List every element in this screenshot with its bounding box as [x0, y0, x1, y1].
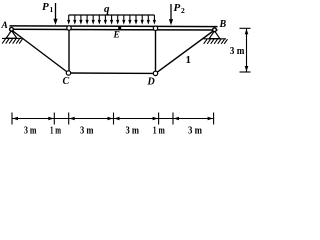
svg-text:3 m: 3 m — [24, 125, 37, 137]
dimension ticks bottom — [12, 113, 214, 125]
beam top chord A-B (double line) — [10, 26, 218, 30]
svg-text:E: E — [113, 30, 120, 40]
load P2 arrow — [169, 4, 173, 25]
dimension line right vertical — [246, 29, 248, 73]
svg-text:P: P — [174, 2, 181, 14]
wire diagonal member D-B — [156, 30, 215, 73]
dimension arrowheads right — [245, 29, 249, 72]
load P1 arrow — [53, 3, 57, 25]
svg-text:1: 1 — [186, 54, 192, 66]
svg-text:1 m: 1 m — [50, 125, 61, 137]
svg-text:1: 1 — [50, 5, 54, 14]
svg-text:2: 2 — [181, 6, 185, 15]
dimension ticks right — [240, 28, 251, 72]
svg-text:3 m: 3 m — [188, 125, 202, 137]
support A ground hatching — [2, 38, 23, 43]
wire vertical member hinge1-C — [68, 29, 70, 73]
distributed load q arrows — [67, 15, 156, 25]
support B ground hatching — [204, 39, 228, 44]
svg-text:P: P — [42, 1, 49, 13]
wire bottom chord C-D — [69, 72, 156, 74]
svg-text:A: A — [1, 21, 8, 31]
svg-text:q: q — [104, 3, 110, 15]
svg-text:1 m: 1 m — [153, 125, 165, 137]
support B pin — [209, 28, 220, 39]
hinge circle on beam above C — [67, 26, 71, 30]
svg-text:C: C — [63, 76, 70, 87]
svg-text:D: D — [147, 77, 155, 88]
wire diagonal member A-C — [12, 30, 69, 73]
wire vertical member hinge2-D — [155, 29, 157, 73]
dimension line bottom — [12, 118, 214, 120]
node C circle — [66, 71, 70, 75]
hinge circle on beam above D — [153, 26, 157, 30]
distributed load q line — [69, 14, 155, 16]
support A pin — [6, 27, 17, 38]
svg-text:B: B — [219, 19, 227, 30]
node E dot — [118, 27, 121, 30]
dimension arrowheads bottom — [13, 117, 214, 121]
node D circle — [153, 71, 157, 75]
svg-text:3 m: 3 m — [230, 45, 245, 57]
svg-text:3 m: 3 m — [80, 125, 94, 137]
svg-text:3 m: 3 m — [126, 125, 140, 137]
